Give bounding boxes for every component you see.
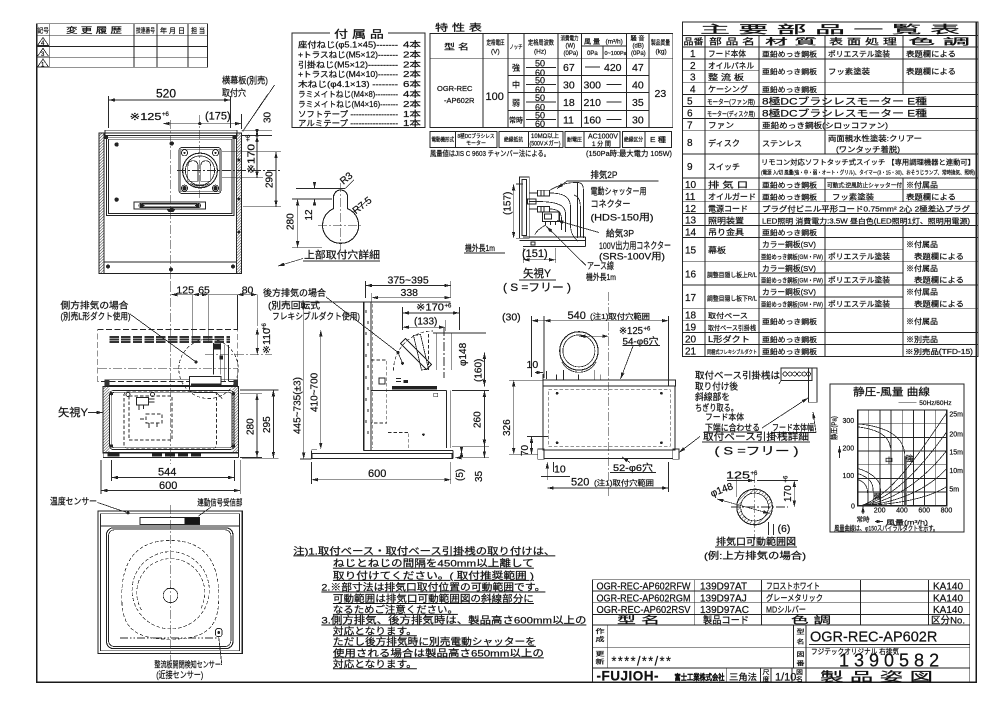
svg-text:10: 10 [554,464,566,476]
svg-text:側方排気の場合: 側方排気の場合 [61,300,129,311]
svg-text:後方排気の場合: 後方排気の場合 [263,287,326,298]
3P connector block [542,212,559,222]
dim *125+6 (rear) [579,335,609,337]
svg-text:125: 125 [726,471,751,482]
svg-text:520: 520 [156,87,176,101]
svg-text:ステンレス: ステンレス [762,139,802,148]
svg-text:フード本体: フード本体 [708,49,746,59]
oil panel (bottom) [107,528,233,649]
svg-text:ソフトテープ -----------------: ソフトテープ ----------------- [298,110,398,119]
dim (175) [241,114,243,129]
revision table [37,24,208,68]
duct chase verticals [213,343,228,383]
svg-text:544: 544 [158,467,176,479]
svg-text:OGR-REC-AP602RGM: OGR-REC-AP602RGM [597,593,691,604]
svg-text:E 種: E 種 [650,136,666,144]
svg-text:15m: 15m [949,450,963,457]
svg-text:100: 100 [843,473,855,480]
svg-text:引掛ねじ(M5×12)----------: 引掛ねじ(M5×12)---------- [298,59,398,69]
svg-text:300: 300 [584,80,602,92]
svg-text:30: 30 [563,80,575,92]
svg-text:L形ダクト: L形ダクト [708,334,750,344]
svg-text:亜鉛めっき鋼板: 亜鉛めっき鋼板 [762,347,817,356]
svg-text:20m: 20m [949,431,963,438]
corner screws (front) [110,392,113,395]
dim (157) [516,184,523,238]
svg-text:60: 60 [535,119,545,129]
svg-text:モーター: モーター [466,139,486,147]
svg-text:2.※部寸法は排気口取付位置の可動範囲です。: 2.※部寸法は排気口取付位置の可動範囲です。 [321,582,545,594]
dim 338 [371,293,373,302]
svg-text:30: 30 [632,115,644,127]
svg-text:2本: 2本 [403,59,422,69]
svg-text:下端に合わせる: 下端に合わせる [705,422,760,432]
svg-text:+6: +6 [246,134,252,142]
svg-text:(160): (160) [474,359,485,382]
connector 1 [538,190,550,196]
top panel (upper chamber) [106,137,234,215]
svg-text:モーター(ディスク用): モーター(ディスク用) [707,109,755,118]
svg-text:160: 160 [584,115,602,127]
svg-text:210: 210 [584,97,602,109]
svg-text:7: 7 [687,120,693,131]
svg-text:製品質量: 製品質量 [651,38,670,47]
svg-text:47: 47 [632,62,644,74]
svg-text:※170: ※170 [416,303,444,314]
louver grille [109,336,118,338]
svg-text:風量値はJIS C 9603 チャンバー法による。: 風量値はJIS C 9603 チャンバー法による。 [430,148,550,158]
svg-text:オイルパネル: オイルパネル [708,62,754,71]
svg-text:12: 12 [304,209,315,221]
svg-text:カラー鋼板(SV): カラー鋼板(SV) [762,239,817,249]
svg-text:斜線部を: 斜線部を [695,391,730,402]
svg-text:区分No.: 区分No. [931,615,965,626]
svg-text:5: 5 [687,97,693,108]
svg-text:機外長1m: 機外長1m [586,272,616,282]
svg-text:2本: 2本 [403,49,422,59]
svg-text:400: 400 [896,508,908,515]
svg-text:オイルガード: オイルガード [708,192,756,202]
svg-text:(30): (30) [502,312,521,324]
svg-text:注)1.取付ベース・取付ベース引掛桟の取り付けは、: 注)1.取付ベース・取付ベース引掛桟の取り付けは、 [293,545,555,557]
svg-text:亜鉛めっき鋼板(シロッコファン): 亜鉛めっき鋼板(シロッコファン) [762,120,889,130]
dim *125+6 [163,123,200,125]
svg-text:亜鉛めっき鋼板: 亜鉛めっき鋼板 [762,67,817,76]
svg-text:100: 100 [486,91,504,103]
svg-text:フッ素塗装: フッ素塗装 [828,66,871,76]
duct resistance curves [862,487,947,506]
svg-text:※125: ※125 [619,326,643,337]
svg-text:(500Vメガー): (500Vメガー) [530,140,561,148]
svg-text:調整目隠し板上R/L: 調整目隠し板上R/L [707,270,757,279]
connector 3 [538,206,550,212]
rear body [543,386,675,450]
dim 540 / (30) [544,316,669,386]
plot grid [858,410,947,506]
svg-text:幕板: 幕板 [708,245,726,255]
svg-text:(V): (V) [491,49,500,56]
revision mark triangle 1 [38,38,49,46]
svg-text:+6: +6 [784,475,790,483]
svg-text:名: 名 [797,638,805,646]
svg-text:カラー鋼板(SV): カラー鋼板(SV) [762,287,817,297]
svg-text:+トラスねじ(M5×12)-------: +トラスねじ(M5×12)------- [298,50,398,59]
svg-text:フード本体幅: フード本体幅 [772,423,814,433]
svg-text:(別売回転式: (別売回転式 [268,300,320,311]
svg-text:+6: +6 [445,304,453,310]
svg-text:295: 295 [262,416,273,433]
hood top base [520,237,586,247]
svg-text:常時: 常時 [857,515,871,524]
dim *170+6 (right) [222,177,263,179]
svg-text:照明装置: 照明装置 [708,215,744,225]
svg-text:使用される場合は製品高さ650mm以上の: 使用される場合は製品高さ650mm以上の [333,647,544,659]
svg-text:(m³/h): (m³/h) [606,39,623,46]
svg-text:21: 21 [685,346,697,357]
svg-text:( S =フリー ): ( S =フリー ) [715,446,799,458]
svg-text:ケーシング: ケーシング [708,84,748,94]
svg-text:整 流 板: 整 流 板 [708,72,744,82]
svg-text:コネクター: コネクター [591,199,631,209]
svg-text:電動シャッター用: 電動シャッター用 [591,187,647,197]
svg-text:(175): (175) [205,111,231,123]
svg-text:100V出力用コネクター: 100V出力用コネクター [599,240,671,252]
svg-text:375~395: 375~395 [388,275,429,287]
svg-text:※別売品: ※別売品 [906,334,938,344]
svg-text:2: 2 [690,61,696,72]
centerlines [170,120,172,285]
svg-text:プラグ付ビニル平形コード0.75mm² 2心 2極差込プラグ: プラグ付ビニル平形コード0.75mm² 2心 2極差込プラグ [762,203,971,213]
svg-text:フレキシブルダクト使用): フレキシブルダクト使用) [272,311,360,322]
svg-text:可動式:逆風防止シャッター付: 可動式:逆風防止シャッター付 [827,182,902,190]
svg-text:(近接センサー): (近接センサー) [156,669,203,680]
joutai arrow [862,506,864,514]
back panel [363,302,365,450]
svg-text:リモコン対応ソフトタッチ式スイッチ 【専用調理機器と連動可】: リモコン対応ソフトタッチ式スイッチ 【専用調理機器と連動可】 [761,158,975,167]
svg-text:色 調: 色 調 [908,37,970,47]
svg-text:尺: 尺 [763,670,770,677]
dim 280 / 295 (front right) [240,390,279,458]
svg-text:12: 12 [685,204,697,215]
svg-text:色 調: 色 調 [791,614,831,626]
hood top line [364,301,451,303]
svg-text:10: 10 [527,359,539,371]
shutter vanes [188,161,198,182]
svg-text:中: 中 [885,455,893,465]
svg-text:16: 16 [685,269,697,280]
svg-text:可動範囲は排気口可動範囲図の斜線部分に: 可動範囲は排気口可動範囲図の斜線部分に [333,593,534,605]
svg-text:326: 326 [502,419,513,436]
svg-text:420: 420 [604,62,622,74]
svg-text:両面親水性塗装:クリアー: 両面親水性塗装:クリアー [828,133,922,143]
svg-text:(150Pa時:最大電力 105W): (150Pa時:最大電力 105W) [586,148,672,158]
svg-text:φ148: φ148 [709,481,735,500]
svg-text:3: 3 [690,73,696,84]
svg-text:ポリエステル塗装: ポリエステル塗装 [828,251,891,261]
svg-text:品番: 品番 [684,37,705,47]
rotated duct position (hatched) [414,335,429,371]
svg-text:ポリエステル塗装: ポリエステル塗装 [828,298,891,308]
svg-text:取付ベース: 取付ベース [708,311,748,320]
svg-text:(6): (6) [778,523,791,535]
sensor / connector cluster [137,398,149,406]
svg-text:※付属品: ※付属品 [906,180,938,190]
duct swing arc [394,331,434,371]
bottom band with switch marks [103,453,238,458]
svg-text:+6: +6 [751,471,759,477]
svg-text:300: 300 [843,418,855,425]
hood edge bar [520,177,530,238]
connector 2 [528,199,537,204]
legend [898,401,916,403]
svg-text:※付属品: ※付属品 [906,287,938,297]
svg-text:OGR-REC-AP602R: OGR-REC-AP602R [810,630,937,646]
svg-text:型 名: 型 名 [617,614,660,626]
svg-text:表題欄による: 表題欄による [914,298,964,308]
svg-text:耐電圧: 耐電圧 [567,136,582,144]
revision mark triangle 3 [38,59,49,67]
svg-text:作: 作 [596,628,605,636]
svg-text:AC1000V: AC1000V [588,134,618,141]
body outline (bottom) [98,511,242,654]
hood body outline (top view) [99,133,242,274]
svg-text:280: 280 [246,418,257,435]
svg-text:取り付け後: 取り付け後 [695,380,738,391]
svg-text:(151): (151) [522,248,548,260]
svg-text:表 面 処 理: 表 面 処 理 [829,37,898,47]
IR receiver slot [140,518,199,525]
svg-text:取付ベース引掛桟詳細: 取付ベース引掛桟詳細 [703,431,809,443]
flow guide chain line [120,637,219,639]
svg-text:2本: 2本 [403,69,422,79]
svg-text:弱: 弱 [874,493,881,501]
svg-text:定格電圧: 定格電圧 [487,38,505,47]
svg-text:(dB): (dB) [633,44,644,50]
svg-text:※170: ※170 [247,143,258,174]
svg-text:(Hz): (Hz) [534,49,546,56]
svg-text:1/10: 1/10 [775,672,796,684]
leader to hanger detail [679,437,700,453]
side-panel mounting comb strip [105,130,237,135]
dim 170+6 (fig) [757,480,798,482]
main body (front) [103,387,238,453]
svg-text:年 月 日: 年 月 日 [160,26,185,35]
svg-text:1390582: 1390582 [839,651,944,671]
dim 280 (detail) [292,188,345,247]
svg-text:なるためご注意ください。: なるためご注意ください。 [333,604,458,616]
svg-text:成: 成 [596,636,605,644]
svg-text:取付ベース引掛桟は: 取付ベース引掛桟は [695,370,780,381]
svg-text:モーター(ファン用): モーター(ファン用) [707,97,755,106]
svg-text:260: 260 [473,411,484,428]
svg-text:ポリエステル塗装: ポリエステル塗装 [828,49,891,59]
svg-text:10MΩ以上: 10MΩ以上 [531,132,559,140]
svg-text:図: 図 [797,652,805,659]
ring [737,489,773,525]
dim 520 (rear bottom) [668,462,670,492]
leader R3 [346,180,355,189]
svg-text:変 更 履 歴: 変 更 履 歴 [66,25,122,35]
duct tube [433,333,455,370]
svg-text:OGR-REC: OGR-REC [437,84,473,93]
svg-text:スイッチ: スイッチ [708,163,740,172]
parts rows 1-21 [685,49,975,358]
svg-text:3.側方排気、後方排気時は、製品高さ600mm以上の: 3.側方排気、後方排気時は、製品高さ600mm以上の [321,615,586,627]
svg-text:(157): (157) [503,192,514,215]
svg-text:MDシルバー: MDシルバー [766,605,806,615]
svg-text:製品コード: 製品コード [703,614,749,626]
svg-text:アルミテープ -----------------: アルミテープ ----------------- [298,119,398,128]
svg-text:定格周波数: 定格周波数 [528,38,554,47]
svg-text:6本: 6本 [403,79,422,89]
svg-text:65: 65 [198,285,210,297]
svg-text:アース線: アース線 [587,260,614,271]
svg-text:10m: 10m [949,468,963,475]
svg-text:540: 540 [568,310,586,322]
svg-text:フッ素塗装: フッ素塗装 [832,192,875,202]
svg-text:ノッチ: ノッチ [510,44,523,51]
centerline front view [170,283,172,464]
svg-text:50Hz/60Hz: 50Hz/60Hz [919,400,951,407]
svg-text:製 品 姿 図: 製 品 姿 図 [820,670,933,684]
svg-text:13: 13 [685,216,697,227]
svg-text:23: 23 [655,88,667,100]
svg-text:14: 14 [685,228,697,239]
svg-text:亜鉛めっき鋼板: 亜鉛めっき鋼板 [762,228,817,237]
svg-text:吊り金具: 吊り金具 [708,227,744,237]
svg-text:50: 50 [535,59,545,69]
svg-text:表題欄による: 表題欄による [906,49,956,59]
svg-text:対応となります。: 対応となります。 [333,658,417,670]
svg-text:139D97AT: 139D97AT [700,582,747,593]
svg-text:R7.5: R7.5 [351,195,375,217]
svg-text:技連番号: 技連番号 [136,26,155,35]
svg-text:338: 338 [401,287,419,299]
svg-text:φ148: φ148 [458,342,469,366]
svg-text:KA140: KA140 [933,593,963,604]
corner brackets [104,135,108,139]
svg-text:10: 10 [685,180,697,191]
mounting flange comb strip [105,380,238,386]
svg-text:+6: +6 [262,322,268,330]
svg-text:35: 35 [632,97,644,109]
fan curves [858,424,905,506]
main parts list table 主要部品一覧表 [683,22,979,356]
svg-text:木ねじ(φ4.1×13) --------: 木ねじ(φ4.1×13) -------- [298,79,398,89]
svg-text:グレーメタリック: グレーメタリック [766,593,823,603]
svg-text:亜鉛めっき鋼板: 亜鉛めっき鋼板 [762,317,817,326]
svg-text:※付属品: ※付属品 [906,316,938,326]
svg-text:ラミメイトねじ(M4×16)-------: ラミメイトねじ(M4×16)------- [298,100,398,109]
svg-text:520: 520 [571,477,589,489]
svg-text:OGR-REC-AP602RFW: OGR-REC-AP602RFW [597,582,691,593]
wire bundle [536,193,571,225]
svg-text:整流板開閉検知センサー: 整流板開閉検知センサー [154,660,221,670]
svg-text:静圧-風量 曲線: 静圧-風量 曲線 [853,386,930,399]
svg-text:18: 18 [563,97,575,109]
hidden duct cover (makuita) [371,360,387,423]
svg-text:600: 600 [159,480,177,492]
dim (151) [523,248,555,263]
svg-text:フード本体: フード本体 [705,412,744,422]
svg-text:担 当: 担 当 [191,26,205,35]
accessories box 付属品 [292,28,425,129]
svg-text:2本: 2本 [403,99,422,109]
dim *170+6 (side) [403,307,460,330]
svg-text:67: 67 [563,62,575,74]
svg-text:(133): (133) [414,317,437,328]
svg-text:風量曲線は、φ150スパイラルダクトを示す。: 風量曲線は、φ150スパイラルダクトを示す。 [834,524,938,533]
svg-text:弱: 弱 [512,99,520,108]
svg-text:15: 15 [685,246,697,257]
svg-text:中: 中 [512,80,520,90]
svg-text:同梱式フレキシブルダクト: 同梱式フレキシブルダクト [707,348,757,356]
svg-text:矢視Y: 矢視Y [523,266,552,280]
svg-text:1 分 間: 1 分 間 [592,140,611,148]
svg-text:※別売品(TFD-15): ※別売品(TFD-15) [905,347,973,356]
dim 544 / 600 (front bottom) [101,460,240,494]
dim 445~735 / 410~700 [300,302,364,459]
dim 30 (right) [242,130,273,135]
dim 35 / (5) [455,446,489,458]
center lines horizontal [205,354,272,356]
duct channel edge in panel [190,386,223,399]
svg-text:矢視Y: 矢視Y [58,405,89,419]
svg-text:0: 0 [851,503,855,510]
svg-text:温度センサー: 温度センサー [50,496,97,507]
svg-text:※付属品: ※付属品 [906,239,938,249]
operating band (strong) [904,456,907,506]
dim 326 / 70 [509,380,548,454]
svg-text:(kg): (kg) [656,49,667,56]
svg-text:給気3P: 給気3P [606,228,634,239]
svg-text:****/**/**: ****/**/** [612,655,673,669]
svg-text:(0Pa): (0Pa) [631,51,646,57]
svg-text:※125: ※125 [130,112,163,123]
oil panel [110,391,234,450]
svg-text:( S =フリー ): ( S =フリー ) [503,282,571,294]
svg-text:亜鉛めっき鋼板: 亜鉛めっき鋼板 [762,335,817,344]
svg-text:亜鉛めっき鋼板(GM・FW): 亜鉛めっき鋼板(GM・FW) [761,299,823,308]
wires and connectors [529,193,537,209]
dim 260 [452,391,489,447]
duct collar (rear) [560,332,598,370]
svg-text:+6: +6 [644,327,652,333]
svg-text:排気口可動範囲図: 排気口可動範囲図 [716,536,796,548]
svg-text:電動機形式: 電動機形式 [432,136,455,144]
duct flange plate [179,148,221,194]
svg-text:連動信号受信部: 連動信号受信部 [197,498,242,508]
svg-text:6: 6 [687,108,693,119]
svg-text:亜鉛めっき鋼板: 亜鉛めっき鋼板 [762,50,817,59]
keyhole outline [323,190,359,243]
svg-text:亜鉛めっき鋼板: 亜鉛めっき鋼板 [762,85,817,94]
disk hidden contours [122,541,219,640]
dim 520 [109,96,231,128]
handle slot [134,202,206,209]
svg-text:290: 290 [265,171,276,188]
svg-text:絶縁抵抗: 絶縁抵抗 [504,136,523,144]
svg-text:KA140: KA140 [933,582,963,593]
svg-text:調整目隠し板下R/L: 調整目隠し板下R/L [707,294,757,303]
svg-text:三角法: 三角法 [729,672,757,682]
svg-text:機外長1m: 機外長1m [465,243,495,253]
svg-text:0~100Pa: 0~100Pa [605,51,628,57]
svg-text:9: 9 [687,162,693,173]
duct base plate (thick) [392,386,437,389]
svg-text:25m: 25m [949,412,963,419]
exhaust collar [183,153,218,188]
